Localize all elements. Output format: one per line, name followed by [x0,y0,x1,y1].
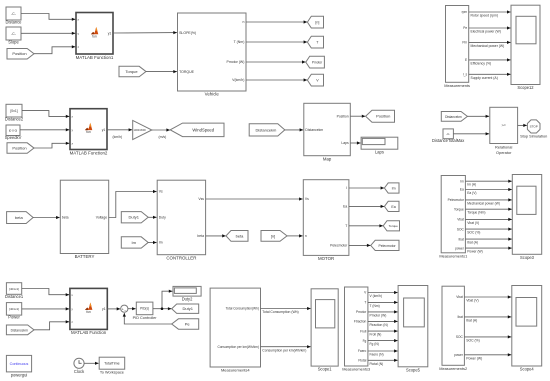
Scope5 block [398,286,428,373]
goto tag Torque (row3) [383,221,399,231]
svg-text:Ea: Ea [391,205,395,209]
svg-text:Pe: Pe [463,26,467,30]
wire Measurements3 V to Scope5 [368,291,398,298]
wire Measurements1 Ea to Scope3 [465,188,512,195]
svg-text:Faero: Faero [358,349,367,353]
Scope3 block [512,175,541,260]
svg-text:SOC (%): SOC (%) [466,339,480,343]
svg-text:Distance1: Distance1 [5,294,24,299]
svg-text:Relational: Relational [495,144,512,149]
svg-text:-C-: -C- [11,32,16,36]
from tag Distancekm (row2 map) [249,124,285,136]
svg-text:V (km/h): V (km/h) [370,294,382,298]
svg-text:Laps: Laps [375,150,384,155]
wire Consumption per km to Scope1 [261,345,311,352]
svg-text:Vss: Vss [198,197,204,201]
svg-text:Mechanical power (W): Mechanical power (W) [471,44,505,48]
svg-text:Mechanical power (W): Mechanical power (W) [467,201,500,205]
goto tag Duty1 (row4) [172,304,199,313]
wire MOTOR I to goto Im [349,186,384,189]
svg-text:-C-: -C- [446,132,450,136]
constant [401x1] Power [6,303,21,320]
svg-text:TORQUE: TORQUE [179,70,195,74]
svg-text:beta: beta [62,216,69,220]
svg-text:Im: Im [159,241,163,245]
goto tag Position [366,110,395,122]
constant [401x1] Distance1 [5,283,24,299]
svg-text:Froll (N): Froll (N) [370,333,382,337]
svg-text:Ibat: Ibat [458,237,463,241]
Map subsystem block [304,103,351,161]
svg-text:[401x1]: [401x1] [9,287,19,291]
svg-text:Fg (N): Fg (N) [370,342,379,346]
svg-text:Consumption per km(Wh/km): Consumption per km(Wh/km) [262,348,306,352]
wire Measurements1 Torque to Scope3 [465,208,512,215]
svg-text:Pmotor (W): Pmotor (W) [227,60,245,64]
goto tag T [307,36,323,48]
wire CONTROLLER beta to goto beta [206,234,226,237]
svg-text:beta: beta [197,234,204,238]
svg-text:Distance: Distance [6,20,23,25]
wire Distancekm to MATLAB Function z [34,320,69,330]
wire Duty1 to CONTROLLER Duty [148,216,156,219]
wire MOTOR T to goto Torque [349,224,383,227]
from tag Torque (row1) [119,66,146,77]
svg-text:Pelecmotor: Pelecmotor [330,244,348,248]
svg-text:Torque (Nm): Torque (Nm) [467,211,485,215]
svg-text:Pmotor: Pmotor [356,310,367,314]
svg-text:Fg: Fg [363,339,367,343]
wire Position to MATLAB Function1 z [34,45,75,54]
svg-text:Total Consumption(Wh): Total Consumption(Wh) [226,307,259,311]
svg-text:SLOPE(%): SLOPE(%) [179,31,196,35]
svg-text:Ftotal: Ftotal [358,359,366,363]
wire Supply current to Scope12 [469,73,511,80]
svg-text:Duty1: Duty1 [182,306,193,311]
svg-text:[n]: [n] [315,21,319,25]
svg-text:Ftraction (N): Ftraction (N) [370,323,388,327]
svg-text:Power (W): Power (W) [466,357,482,361]
Measurements2 subsystem block [439,286,467,371]
wire Measurements3 T to Scope5 [368,301,398,308]
wire MOTOR Ea to goto Ea [349,205,384,208]
svg-text:Position: Position [337,114,349,118]
display Laps [361,137,398,154]
svg-text:PID Controller: PID Controller [133,316,158,320]
wire MOTOR Pelecmotor to goto Pelecmotor [349,244,371,247]
constant -C- Slope [6,27,21,45]
svg-text:Rotor speed (rpm): Rotor speed (rpm) [471,14,499,18]
wire Power to MATLAB Function y [22,307,70,310]
svg-text:>=: >= [501,124,506,128]
svg-text:Scope4: Scope4 [520,367,535,372]
wire Measurements3 Froll to Scope5 [368,330,398,337]
svg-text:Froll: Froll [360,329,366,333]
wire Sum to PID Controller [128,307,136,310]
sum junction block [121,305,128,313]
goto tag Ea (row3) [384,201,399,211]
from tag [n] (row3) [261,231,287,242]
svg-text:(km/h): (km/h) [113,135,123,139]
from tag Distancekm (row2 stop) [441,112,467,122]
svg-text:Supply current (A): Supply current (A) [471,76,498,80]
wire Distancekm to Map [285,128,303,131]
constant -C- DistanceTotalMax [432,129,464,143]
svg-text:Slope: Slope [8,40,19,45]
svg-text:Vs: Vs [159,190,163,194]
svg-text:MATLAB Function2: MATLAB Function2 [70,150,108,155]
goto tag beta (row3) [226,231,248,242]
svg-text:Distancekm: Distancekm [305,128,323,132]
svg-text:[n]: [n] [271,233,275,238]
svg-text:Scope3: Scope3 [520,255,535,260]
svg-text:SOC: SOC [457,227,465,231]
wire Total Consumption to Scope1 [261,307,311,314]
wire Distance to MATLAB Function1 x [21,14,75,21]
svg-text:fun: fun [92,34,97,38]
wire CONTROLLER Vss to MOTOR Vs [206,197,303,200]
from tag Position (row1) [7,49,34,60]
wire Measurements3 Ftraction to Scope5 [368,320,398,327]
svg-text:powergui: powergui [11,372,28,377]
svg-text:Pmotor: Pmotor [312,61,323,65]
wire PID Controller to goto Duty1 [153,307,172,310]
wire MATLAB Function y1 to Sum [107,307,120,310]
svg-text:Total Consumption (Wh): Total Consumption (Wh) [262,310,298,314]
svg-text:T (Nm): T (Nm) [234,40,245,44]
svg-text:MOTOR: MOTOR [318,256,334,261]
svg-text:Pelecmotor: Pelecmotor [379,244,397,248]
svg-text:Power (W): Power (W) [467,250,483,254]
wire Distance2 to MATLAB Function2 x [22,111,69,118]
svg-text:SpeedkV: SpeedkV [5,135,22,140]
from tag Duty1 (row3) [121,212,148,223]
svg-text:Duty1: Duty1 [128,215,139,220]
svg-text:y1: y1 [102,307,106,311]
powergui block [6,355,31,377]
Measurements subsystem block [444,6,470,88]
svg-text:Scope5: Scope5 [406,367,421,372]
svg-text:Laps: Laps [341,141,349,145]
svg-text:Im: Im [131,240,136,245]
Measurements4 subsystem block [210,288,260,373]
svg-text:I_s: I_s [463,73,468,77]
wire beta to BATTERY [33,216,60,219]
svg-text:Vehicle: Vehicle [205,92,220,97]
goto tag Im (row3) [384,183,399,193]
wire Pe to Sum feedback [123,313,172,324]
svg-text:y1: y1 [102,128,106,132]
svg-text:Scope1: Scope1 [318,367,333,372]
Scope12 block [511,5,540,90]
Scope4 block [512,286,542,372]
Vehicle subsystem block [178,13,247,97]
To Workspace block TotalTime [99,357,125,374]
svg-text:Duty2: Duty2 [182,297,193,302]
svg-text:Distancekm: Distancekm [11,328,28,332]
svg-text:Voltage: Voltage [96,216,107,220]
wire Vehicle Pmotor to goto Pmotor [246,60,306,63]
svg-text:Position: Position [376,114,390,119]
svg-text:DistanceTotalMax: DistanceTotalMax [432,138,464,143]
svg-text:power: power [455,246,465,250]
svg-text:E: E [465,58,467,62]
svg-text:Distance2: Distance2 [5,117,24,122]
svg-text:Map: Map [323,156,332,161]
svg-text:−: − [124,309,126,313]
goto tag [n] [307,16,323,28]
PID Controller block [133,302,158,320]
svg-text:n: n [242,20,244,24]
svg-text:Electrical power (W): Electrical power (W) [471,30,501,34]
wire Measurements1 Pelecmotor to Scope3 [465,198,512,205]
svg-text:Measurements: Measurements [444,83,470,88]
Measurements1 subsystem block [439,176,467,259]
from tag Pe (row4) [172,319,199,329]
wire Electrical power to Scope12 [469,26,511,33]
gain block 1000/3600 [133,120,152,139]
svg-text:(m/s): (m/s) [159,135,167,139]
svg-text:Pe: Pe [185,321,191,326]
svg-text:Consumption per km(Wh/km): Consumption per km(Wh/km) [217,345,258,349]
wire Rotor speed to Scope12 [469,10,511,17]
svg-text:Distancekm: Distancekm [255,127,277,132]
svg-text:Stop Simulation: Stop Simulation [520,133,547,138]
Scope1 block [311,289,338,372]
svg-text:Distancekm: Distancekm [445,115,462,119]
svg-text:STOP: STOP [530,125,538,129]
svg-text:[0x1]: [0x1] [10,109,17,113]
svg-text:T: T [364,301,366,305]
svg-text:T: T [345,224,347,228]
Relational Operator block [490,107,518,155]
MOTOR subsystem block [303,180,349,261]
constant [0x1] Distance2 [5,104,24,121]
svg-text:Torque: Torque [454,207,464,211]
MATLAB Function1 block [76,13,114,60]
svg-text:Pelecmotor: Pelecmotor [448,198,465,202]
wire Measurements3 Faero to Scope5 [368,349,398,356]
svg-text:SOC (%): SOC (%) [467,231,480,235]
wire Vehicle T to goto T [246,40,307,43]
wire Distance1 to MATLAB Function x [22,289,70,297]
wire Measurements3 Pmotor to Scope5 [368,310,398,317]
svg-text:Im (A): Im (A) [467,183,476,187]
svg-text:Pmotor (W): Pmotor (W) [370,313,387,317]
svg-text:Vbat: Vbat [457,218,464,222]
wire Measurements3 Fg to Scope5 [368,339,398,346]
svg-text:I: I [346,186,347,190]
goto tag WindSpeed [170,123,224,137]
from tag Position (row2) [7,143,34,154]
wire Slope to MATLAB Function1 y [21,32,75,35]
wire Measurements1 SOC to Scope3 [465,228,512,235]
svg-text:Vs: Vs [305,197,309,201]
wire Clock to TotalTime [84,362,99,365]
wire branch PID output to Duty2 display [161,290,173,310]
svg-text:Ea: Ea [460,188,464,192]
svg-text:Ftotal (N): Ftotal (N) [370,362,384,366]
svg-text:Vbat (V): Vbat (V) [467,221,479,225]
svg-text:n: n [305,234,307,238]
goto tag Pmotor [306,56,325,68]
from tag Distancekm (row4) [6,325,34,335]
wire [n] to MOTOR n [287,234,303,237]
svg-text:Ibat (A): Ibat (A) [466,319,477,323]
svg-text:TotalTime: TotalTime [104,362,119,366]
wire Measurements2 power to Scope4 [464,353,511,360]
BATTERY subsystem block [60,180,108,259]
svg-text:Ea: Ea [343,205,347,209]
from tag Im (row3) [121,237,148,248]
wire Measurements1 Ibat to Scope3 [465,238,512,245]
wire Map Laps to Laps display [350,141,360,144]
svg-text:Scope12: Scope12 [517,85,534,90]
svg-text:Position: Position [12,145,26,150]
CONTROLLER subsystem block [157,180,205,260]
STOP Simulation block [520,120,547,138]
wire Vehicle n to goto [n] [246,20,307,23]
wire Measurements2 Ibat to Scope4 [464,315,511,322]
svg-text:Faero (N): Faero (N) [370,353,384,357]
svg-text:Power: Power [8,315,20,320]
svg-text:Continuous: Continuous [10,362,29,366]
svg-text:power: power [454,353,464,357]
wire Map Position to goto Position [350,115,365,118]
svg-text:Clock: Clock [74,369,85,374]
constant -C- Distance [6,7,23,25]
svg-text:Measurements3: Measurements3 [342,367,370,372]
svg-text:PID(s): PID(s) [140,307,149,311]
svg-text:Efficiency (%): Efficiency (%) [471,62,492,66]
svg-text:Measurements2: Measurements2 [439,366,467,371]
MATLAB Function2 block [70,109,108,156]
wire Measurements3 Ftotal to Scope5 [368,359,398,366]
wire Measurements2 SOC to Scope4 [464,335,511,342]
wire Relational Operator to STOP [518,124,527,127]
svg-text:fun: fun [86,310,91,314]
wire Position to MATLAB Function2 z [34,142,69,148]
wire Measurements1 Vbat to Scope3 [465,218,512,225]
wire MATLAB Function1 y1 to Vehicle SLOPE [113,31,177,34]
svg-text:Ea (V): Ea (V) [467,191,476,195]
svg-text:Operator: Operator [496,150,512,155]
svg-text:T (Nm): T (Nm) [370,304,380,308]
svg-text:y1: y1 [108,32,112,36]
constant [0 0 0] SpeedkV [5,125,22,140]
svg-text:Ibat: Ibat [457,315,462,319]
svg-text:BATTERY: BATTERY [75,254,95,259]
svg-text:fun: fun [86,130,91,134]
svg-text:rpm: rpm [462,10,468,14]
svg-text:Measurements1: Measurements1 [439,253,467,258]
wire Measurements1 Im to Scope3 [465,180,512,187]
svg-text:-C-: -C- [11,12,16,16]
svg-text:1000/3600: 1000/3600 [133,128,146,132]
wire Mechanical power to Scope12 [469,41,511,48]
wire Vehicle V to goto V [246,78,307,81]
Measurements3 subsystem block [342,287,370,372]
svg-text:SOC: SOC [456,335,464,339]
wire Measurements2 Vbat to Scope4 [464,295,511,302]
wire BATTERY Voltage to CONTROLLER Vs [109,190,157,218]
MATLAB Function block (row4) [70,288,107,335]
svg-text:[401x1]: [401x1] [9,307,19,311]
wire Measurements1 power to Scope3 [465,247,512,254]
wire Gain to WindSpeed goto [152,128,170,139]
svg-text:CONTROLLER: CONTROLLER [166,255,196,260]
svg-text:Ftraction: Ftraction [354,320,367,324]
svg-text:Measurements4: Measurements4 [221,368,250,373]
svg-text:Ibat (A): Ibat (A) [467,241,478,245]
wire Im to CONTROLLER Im [148,241,156,244]
svg-text:MATLAB Function: MATLAB Function [71,330,107,335]
svg-text:Duty: Duty [159,216,166,220]
from tag beta (row3) [7,212,33,224]
svg-text:Pm: Pm [462,41,467,45]
svg-text:Vbat: Vbat [456,295,463,299]
svg-text:To Workspace: To Workspace [100,370,124,374]
svg-text:[0 0 0]: [0 0 0] [9,129,18,133]
goto tag V [307,74,323,86]
wire Efficiency to Scope12 [469,58,511,65]
wire Distancekm to Relational Operator [467,115,489,118]
svg-text:WindSpeed: WindSpeed [192,127,214,132]
wire DistanceTotalMax to Relational Operator [453,132,489,135]
svg-text:Vbat (V): Vbat (V) [466,299,478,303]
display Duty2 [173,286,201,301]
svg-text:beta: beta [15,215,24,220]
goto tag Pelecmotor (row3) [371,240,399,250]
wire MATLAB Function2 y1 to Gain [107,128,132,139]
Clock block [74,358,85,374]
svg-text:Torque: Torque [389,224,399,228]
svg-text:Torque: Torque [125,69,138,74]
wire SpeedkV to MATLAB Function2 y [20,128,69,131]
wire Torque to Vehicle TORQUE [146,70,177,73]
svg-text:Position: Position [12,51,26,56]
svg-text:V(km/h): V(km/h) [232,78,244,82]
svg-text:Im: Im [392,186,396,190]
svg-text:Im: Im [460,179,464,183]
svg-text:beta: beta [236,233,245,238]
svg-text:MATLAB Function1: MATLAB Function1 [76,55,114,60]
